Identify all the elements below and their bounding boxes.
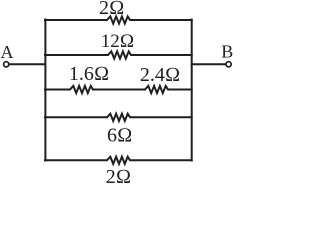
resistor R1 2ohm top branch [45,16,192,23]
svg-text:2.4Ω: 2.4Ω [140,64,180,86]
svg-text:1.6Ω: 1.6Ω [69,63,109,85]
wire: node A lead [9,63,45,65]
svg-text:2Ω: 2Ω [99,0,124,19]
svg-text:B: B [221,42,233,62]
resistor R5 6ohm branch [45,114,192,121]
wire: node B lead [192,63,226,65]
svg-text:12Ω: 12Ω [101,31,135,52]
wire: middle of branch 3 [93,89,145,91]
resistor R6 2ohm bottom branch [45,157,192,164]
wire: left bus [44,20,46,161]
svg-text:6Ω: 6Ω [107,125,132,147]
svg-text:2Ω: 2Ω [106,166,131,187]
resistor R2 12ohm branch [45,51,192,58]
wire: right bus [191,20,193,161]
svg-text:A: A [1,42,14,62]
resistor R4 2.4ohm [145,86,192,93]
terminal B circle [226,62,231,67]
terminal A circle [4,62,9,67]
resistor R3 1.6ohm [45,86,93,93]
